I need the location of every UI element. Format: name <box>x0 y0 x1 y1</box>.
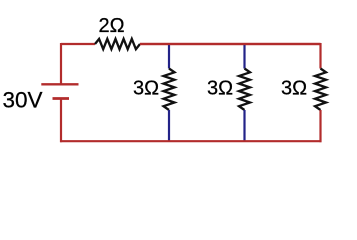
wire left edge lower (battery to bottom) <box>60 99 62 143</box>
svg-text:2Ω: 2Ω <box>99 15 125 37</box>
wire left edge upper (to battery) <box>60 43 62 84</box>
wire blue branch 2 bottom <box>243 110 245 142</box>
wire bottom rail <box>60 140 322 142</box>
wire blue branch 1 top <box>168 44 170 69</box>
svg-text:30V: 30V <box>3 87 43 112</box>
resistor R3 3ohm zigzag <box>239 69 250 111</box>
wire blue branch 2 top <box>243 44 245 69</box>
resistor R4 3ohm zigzag <box>315 69 326 111</box>
svg-text:3Ω: 3Ω <box>281 78 307 100</box>
svg-text:3Ω: 3Ω <box>207 78 233 100</box>
wire blue branch 1 bottom <box>168 110 170 142</box>
wire right edge lower <box>319 110 321 142</box>
wire top-right segment <box>140 43 321 45</box>
battery V1 short plate <box>53 97 70 100</box>
wire right edge upper <box>319 43 321 69</box>
resistor R2 3ohm zigzag <box>164 69 175 111</box>
battery V1 long plate <box>41 83 78 85</box>
wire top-left segment <box>61 43 95 45</box>
resistor R1 2ohm zigzag <box>95 39 140 49</box>
svg-text:3Ω: 3Ω <box>133 78 159 100</box>
wire top rail overlay <box>140 43 321 45</box>
